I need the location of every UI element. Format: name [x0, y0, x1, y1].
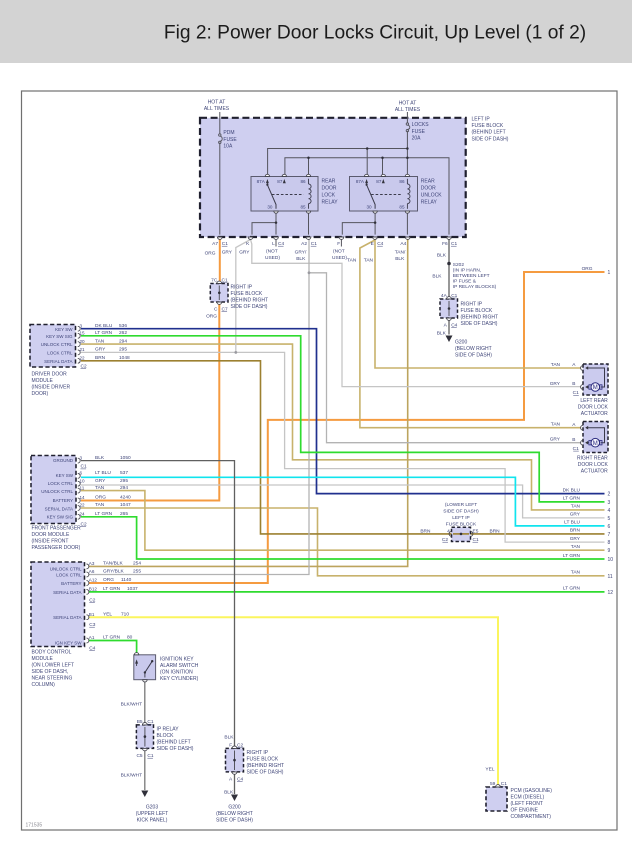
svg-text:GRY: GRY	[222, 250, 233, 256]
svg-text:(ON IGNITION: (ON IGNITION	[160, 669, 193, 675]
svg-text:BLOCK: BLOCK	[157, 733, 175, 739]
svg-text:SIDE OF DASH): SIDE OF DASH)	[455, 353, 492, 359]
svg-text:LT GRN: LT GRN	[95, 330, 113, 336]
svg-text:(BEHIND LEFT: (BEHIND LEFT	[472, 130, 506, 136]
svg-text:A2: A2	[301, 241, 307, 247]
svg-text:RIGHT IP: RIGHT IP	[247, 750, 269, 756]
svg-text:RIGHT IP: RIGHT IP	[461, 302, 483, 308]
svg-text:BATTERY: BATTERY	[53, 498, 73, 503]
svg-text:LEFT REAR: LEFT REAR	[580, 398, 608, 404]
svg-text:LT GRN: LT GRN	[563, 586, 581, 592]
svg-text:BLK: BLK	[296, 256, 306, 262]
svg-text:SIDE OF DASH,: SIDE OF DASH,	[32, 669, 69, 675]
svg-text:87A: 87A	[356, 179, 365, 184]
svg-text:M: M	[593, 441, 598, 447]
svg-text:ALARM SWITCH: ALARM SWITCH	[160, 663, 199, 669]
svg-text:LOCK CTRL: LOCK CTRL	[56, 573, 82, 578]
svg-text:(NOT: (NOT	[266, 249, 278, 255]
svg-text:TAN: TAN	[95, 338, 105, 344]
svg-text:REAR: REAR	[421, 178, 435, 184]
svg-text:PCM (GASOLINE): PCM (GASOLINE)	[511, 788, 553, 794]
svg-text:9: 9	[608, 548, 611, 554]
svg-text:GROUND: GROUND	[53, 458, 74, 463]
svg-text:3: 3	[80, 323, 83, 328]
svg-text:4A: 4A	[441, 293, 448, 299]
svg-text:30: 30	[267, 205, 273, 210]
svg-text:OF ENGINE: OF ENGINE	[511, 808, 539, 814]
svg-text:BLK/WHT: BLK/WHT	[121, 773, 142, 779]
svg-text:LT GRN: LT GRN	[563, 496, 581, 502]
svg-text:DOOR: DOOR	[421, 185, 436, 191]
svg-text:TAN: TAN	[364, 258, 374, 264]
svg-text:SIDE OF DASH): SIDE OF DASH)	[247, 770, 284, 776]
svg-text:DOOR MODULE: DOOR MODULE	[32, 532, 70, 538]
svg-text:RELAY: RELAY	[421, 199, 438, 205]
svg-text:TAN: TAN	[551, 362, 561, 368]
svg-text:14: 14	[80, 495, 86, 500]
svg-text:A4: A4	[400, 241, 406, 247]
svg-text:87: 87	[277, 179, 283, 184]
svg-text:IGN KEY SW: IGN KEY SW	[55, 640, 82, 645]
svg-text:LEFT IP: LEFT IP	[472, 117, 491, 123]
svg-text:FUSE BLOCK: FUSE BLOCK	[247, 757, 279, 763]
svg-text:10: 10	[80, 478, 86, 483]
svg-text:DOOR: DOOR	[322, 185, 337, 191]
svg-text:1140: 1140	[121, 577, 132, 583]
svg-text:DOOR LOCK: DOOR LOCK	[578, 405, 609, 411]
svg-text:ACTUATOR: ACTUATOR	[581, 411, 608, 417]
svg-text:S202: S202	[453, 262, 465, 268]
svg-text:TAN/BLK: TAN/BLK	[103, 561, 123, 567]
svg-text:LT BLU: LT BLU	[564, 520, 580, 526]
svg-text:TAN: TAN	[571, 504, 581, 510]
svg-text:22: 22	[80, 503, 86, 508]
svg-text:LOCKS: LOCKS	[412, 122, 430, 128]
svg-text:ORG: ORG	[582, 266, 593, 272]
svg-text:536: 536	[119, 323, 127, 329]
svg-text:BRN: BRN	[490, 528, 501, 534]
svg-text:YEL: YEL	[485, 767, 494, 773]
svg-text:255: 255	[133, 569, 141, 575]
svg-text:TAN: TAN	[95, 502, 105, 508]
svg-text:(ON LOWER LEFT: (ON LOWER LEFT	[32, 663, 75, 669]
svg-text:B5: B5	[137, 719, 143, 725]
svg-text:295: 295	[119, 347, 127, 353]
svg-text:BLK: BLK	[437, 331, 447, 337]
svg-text:G200: G200	[455, 340, 467, 346]
svg-text:DK BLU: DK BLU	[563, 487, 581, 493]
svg-text:10: 10	[608, 557, 614, 563]
svg-text:B: B	[572, 381, 575, 387]
svg-text:LOCK CTRL: LOCK CTRL	[47, 351, 73, 356]
svg-text:1047: 1047	[120, 502, 131, 508]
svg-text:21: 21	[80, 347, 86, 352]
svg-text:A12: A12	[89, 578, 98, 583]
svg-text:KICK PANEL): KICK PANEL)	[137, 818, 168, 824]
svg-text:BRN: BRN	[95, 355, 106, 361]
svg-text:RIGHT IP: RIGHT IP	[231, 285, 253, 291]
svg-text:FUSE BLOCK: FUSE BLOCK	[472, 123, 504, 129]
svg-text:DRIVER DOOR: DRIVER DOOR	[32, 372, 68, 378]
svg-text:SIDE OF DASH): SIDE OF DASH)	[443, 509, 479, 515]
svg-text:BLK: BLK	[437, 253, 447, 259]
svg-text:PDM: PDM	[223, 130, 234, 136]
svg-text:SIDE OF DASH): SIDE OF DASH)	[216, 818, 253, 824]
svg-text:(BELOW RIGHT: (BELOW RIGHT	[455, 346, 492, 352]
svg-text:FUSE BLOCK: FUSE BLOCK	[446, 521, 477, 527]
svg-text:BODY CONTROL: BODY CONTROL	[32, 650, 72, 656]
svg-text:ORG: ORG	[95, 495, 106, 501]
svg-text:ECM (DIESEL): ECM (DIESEL)	[511, 795, 545, 801]
svg-text:DOOR LOCK: DOOR LOCK	[578, 462, 609, 468]
svg-text:B: B	[572, 437, 575, 443]
svg-text:FRONT PASSENGER: FRONT PASSENGER	[32, 526, 82, 532]
svg-text:(BEHIND RIGHT: (BEHIND RIGHT	[461, 315, 499, 321]
svg-text:FUSE: FUSE	[412, 129, 426, 135]
svg-text:265: 265	[120, 511, 128, 517]
svg-text:B12: B12	[89, 587, 98, 592]
svg-text:LOCK CTRL: LOCK CTRL	[48, 481, 74, 486]
svg-text:BRN: BRN	[420, 528, 431, 534]
svg-text:(NOT: (NOT	[333, 249, 345, 255]
svg-text:(INSIDE DRIVER: (INSIDE DRIVER	[32, 385, 71, 391]
svg-text:PASSENGER DOOR): PASSENGER DOOR)	[32, 545, 81, 551]
svg-text:F6: F6	[442, 241, 448, 247]
svg-text:DOOR): DOOR)	[32, 391, 49, 397]
svg-text:1050: 1050	[120, 455, 131, 461]
svg-text:E: E	[371, 241, 374, 247]
svg-text:30: 30	[366, 205, 372, 210]
svg-text:HOT AT: HOT AT	[208, 100, 226, 106]
svg-text:SIDE OF DASH): SIDE OF DASH)	[472, 136, 509, 142]
svg-text:22: 22	[80, 356, 86, 361]
svg-text:LOCK: LOCK	[322, 192, 336, 198]
svg-text:BLK: BLK	[95, 455, 105, 461]
svg-text:SIDE OF DASH): SIDE OF DASH)	[157, 746, 194, 752]
svg-text:GRY: GRY	[570, 512, 581, 518]
svg-text:GRY: GRY	[550, 437, 561, 443]
svg-text:GRY: GRY	[95, 347, 106, 353]
svg-text:DK BLU: DK BLU	[95, 323, 113, 329]
svg-text:24: 24	[80, 512, 86, 517]
svg-text:ORG: ORG	[103, 577, 114, 583]
svg-text:85: 85	[399, 205, 405, 210]
svg-text:A7: A7	[212, 241, 218, 247]
svg-text:RELAY: RELAY	[322, 199, 339, 205]
svg-text:15: 15	[80, 331, 86, 336]
svg-text:4: 4	[447, 529, 450, 535]
svg-text:5: 5	[608, 516, 611, 522]
svg-text:UNLOCK CTRL: UNLOCK CTRL	[41, 342, 73, 347]
svg-text:(BEHIND RIGHT: (BEHIND RIGHT	[247, 763, 285, 769]
svg-text:RIGHT REAR: RIGHT REAR	[577, 456, 608, 462]
svg-text:86: 86	[301, 179, 307, 184]
svg-text:FUSE BLOCK: FUSE BLOCK	[231, 291, 263, 297]
svg-text:SIDE OF DASH): SIDE OF DASH)	[461, 321, 498, 327]
svg-text:NEAR STEERING: NEAR STEERING	[32, 676, 73, 682]
svg-text:262: 262	[119, 330, 127, 336]
svg-text:UNLOCK CTRL: UNLOCK CTRL	[41, 489, 73, 494]
svg-text:KEY SW: KEY SW	[55, 327, 73, 332]
svg-text:UNLOCK: UNLOCK	[421, 192, 443, 198]
svg-text:TAN: TAN	[347, 258, 357, 264]
svg-text:171535: 171535	[26, 823, 43, 829]
svg-text:SERIAL DATA: SERIAL DATA	[44, 359, 72, 364]
svg-text:TAN: TAN	[95, 485, 105, 491]
svg-text:GRY/BLK: GRY/BLK	[103, 569, 125, 575]
svg-text:COMPARTMENT): COMPARTMENT)	[511, 814, 552, 820]
svg-text:BRN: BRN	[570, 528, 581, 534]
svg-text:(BELOW RIGHT: (BELOW RIGHT	[216, 811, 253, 817]
svg-text:(INSIDE FRONT: (INSIDE FRONT	[32, 539, 69, 545]
svg-text:85: 85	[301, 205, 307, 210]
svg-text:294: 294	[120, 485, 128, 491]
svg-text:GRY: GRY	[239, 250, 250, 256]
svg-text:537: 537	[120, 470, 128, 476]
svg-text:87: 87	[376, 179, 382, 184]
svg-text:LT GRN: LT GRN	[103, 586, 121, 592]
svg-text:LT GRN: LT GRN	[563, 553, 581, 559]
svg-text:A6: A6	[89, 569, 95, 574]
svg-text:8: 8	[608, 540, 611, 546]
svg-text:3: 3	[608, 500, 611, 506]
svg-text:GRY: GRY	[95, 478, 106, 484]
svg-text:IGNITION KEY: IGNITION KEY	[160, 656, 194, 662]
svg-text:E5: E5	[473, 529, 479, 535]
svg-text:20A: 20A	[412, 136, 422, 142]
svg-text:HOT AT: HOT AT	[399, 101, 417, 107]
svg-text:7: 7	[608, 532, 611, 538]
svg-text:C: C	[214, 307, 218, 313]
svg-text:LT GRN: LT GRN	[103, 635, 121, 641]
svg-text:BATTERY: BATTERY	[61, 581, 81, 586]
svg-text:SERIAL DATA: SERIAL DATA	[45, 507, 73, 512]
svg-text:(BEHIND RIGHT: (BEHIND RIGHT	[231, 298, 269, 304]
svg-text:BETWEEN LEFT: BETWEEN LEFT	[453, 273, 490, 279]
svg-text:A1: A1	[89, 635, 95, 640]
svg-text:80: 80	[127, 635, 133, 641]
svg-text:6: 6	[80, 471, 83, 476]
svg-text:B1: B1	[89, 612, 95, 617]
svg-text:UNLOCK CTRL: UNLOCK CTRL	[50, 566, 82, 571]
svg-text:2: 2	[608, 492, 611, 498]
svg-text:TAN: TAN	[571, 570, 581, 576]
svg-text:C5: C5	[136, 753, 142, 759]
svg-text:MODULE: MODULE	[32, 656, 54, 662]
svg-text:TAN/: TAN/	[395, 250, 406, 256]
svg-text:3: 3	[80, 455, 83, 460]
svg-text:YEL: YEL	[103, 611, 112, 617]
svg-text:G200: G200	[228, 805, 240, 811]
svg-text:(LOWER LEFT: (LOWER LEFT	[445, 502, 477, 508]
svg-text:(BEHIND LEFT: (BEHIND LEFT	[157, 740, 191, 746]
svg-text:7C: 7C	[211, 277, 218, 283]
svg-text:M: M	[593, 385, 598, 391]
svg-text:1037: 1037	[127, 586, 138, 592]
svg-text:TAN: TAN	[571, 544, 581, 550]
svg-text:SIDE OF DASH): SIDE OF DASH)	[231, 304, 268, 310]
svg-text:(UPPER LEFT: (UPPER LEFT	[136, 811, 169, 817]
svg-text:BLK: BLK	[432, 274, 442, 280]
svg-text:(IN IP HARN,: (IN IP HARN,	[453, 268, 481, 274]
svg-text:ALL TIMES: ALL TIMES	[204, 106, 230, 112]
svg-text:F: F	[337, 241, 340, 247]
svg-text:FUSE: FUSE	[223, 137, 237, 143]
svg-text:10A: 10A	[223, 144, 233, 150]
svg-text:295: 295	[120, 478, 128, 484]
svg-text:87A: 87A	[257, 179, 266, 184]
svg-text:ORG: ORG	[206, 313, 217, 319]
svg-text:SERIAL DATA: SERIAL DATA	[53, 590, 81, 595]
svg-text:F: F	[229, 742, 232, 748]
svg-text:11: 11	[80, 485, 85, 490]
svg-text:IP RELAY BLOCKS): IP RELAY BLOCKS)	[453, 284, 497, 290]
svg-text:710: 710	[121, 611, 129, 617]
svg-text:Fig 2: Power Door Locks Circui: Fig 2: Power Door Locks Circuit, Up Leve…	[164, 23, 586, 44]
svg-text:LEFT IP: LEFT IP	[452, 515, 470, 521]
svg-text:BLK: BLK	[395, 256, 405, 262]
svg-text:KEY SW SIG: KEY SW SIG	[47, 515, 74, 520]
svg-text:TAN: TAN	[551, 422, 561, 428]
svg-text:BLK/WHT: BLK/WHT	[121, 702, 142, 708]
svg-text:294: 294	[119, 338, 127, 344]
svg-text:IP FUSE &: IP FUSE &	[453, 279, 477, 285]
svg-text:11: 11	[608, 574, 613, 580]
svg-text:G203: G203	[146, 805, 158, 811]
svg-text:KEY SW SIG: KEY SW SIG	[46, 334, 73, 339]
svg-text:4: 4	[608, 508, 611, 514]
svg-text:ORG: ORG	[205, 251, 216, 257]
svg-text:6: 6	[608, 524, 611, 530]
svg-text:ACTUATOR: ACTUATOR	[581, 469, 608, 475]
svg-text:IP RELAY: IP RELAY	[157, 727, 180, 733]
svg-text:KEY CYLINDER): KEY CYLINDER)	[160, 676, 199, 682]
svg-text:KEY SW: KEY SW	[56, 473, 74, 478]
svg-text:12: 12	[608, 590, 614, 596]
svg-text:4240: 4240	[120, 495, 131, 501]
svg-text:USED): USED)	[265, 255, 280, 261]
svg-text:LT GRN: LT GRN	[95, 511, 113, 517]
svg-text:GRY: GRY	[570, 536, 581, 542]
svg-text:COLUMN): COLUMN)	[32, 682, 56, 688]
svg-text:FUSE BLOCK: FUSE BLOCK	[461, 308, 493, 314]
svg-text:1: 1	[608, 270, 611, 276]
svg-text:86: 86	[399, 179, 405, 184]
svg-text:1048: 1048	[119, 355, 130, 361]
svg-text:SERIAL DATA: SERIAL DATA	[53, 615, 81, 620]
svg-text:59: 59	[490, 781, 496, 787]
svg-text:BLK: BLK	[224, 735, 234, 741]
svg-text:MODULE: MODULE	[32, 378, 54, 384]
svg-text:254: 254	[133, 561, 141, 567]
svg-text:20: 20	[80, 339, 86, 344]
svg-text:L: L	[272, 241, 275, 247]
svg-text:ALL TIMES: ALL TIMES	[395, 107, 421, 113]
svg-text:(LEFT FRONT: (LEFT FRONT	[511, 801, 543, 807]
svg-text:GRY/: GRY/	[295, 250, 307, 256]
svg-text:A3: A3	[89, 561, 95, 566]
svg-text:USED): USED)	[332, 255, 347, 261]
svg-text:GRY: GRY	[550, 381, 561, 387]
svg-text:LT BLU: LT BLU	[95, 470, 111, 476]
svg-text:REAR: REAR	[322, 178, 336, 184]
